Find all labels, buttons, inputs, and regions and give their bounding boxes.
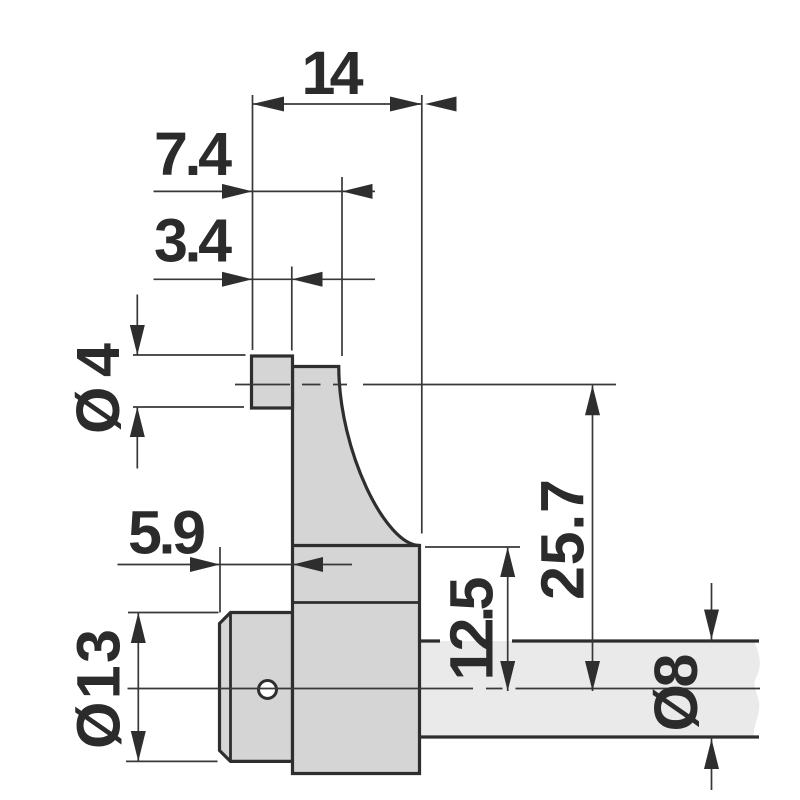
collar chamfer edge line xyxy=(229,613,232,762)
dim 3.4: dimension line xyxy=(154,278,376,280)
dim Ø13: dimension line xyxy=(137,613,139,762)
clamp body xyxy=(293,367,420,774)
dim Ø13: extension lines xyxy=(126,613,219,762)
dim 3.4: extension line xyxy=(291,267,293,351)
collar Ø13 xyxy=(220,613,293,762)
svg-text:Ø 4: Ø 4 xyxy=(64,343,132,434)
dim 12.5: extension line xyxy=(425,546,520,548)
pin centerline xyxy=(235,384,616,386)
dim 5.9: extension line xyxy=(219,547,221,613)
dim 14: extension lines xyxy=(253,95,422,534)
dim Ø4: extension lines xyxy=(133,355,246,407)
dim Ø4: arrows xyxy=(130,325,145,355)
dim 7.4: extension line xyxy=(341,177,343,356)
body slot line xyxy=(293,601,420,604)
dim Ø8: dimension line segments xyxy=(711,583,713,790)
shaft top edge xyxy=(420,639,760,642)
dim 5.9: arrows xyxy=(190,557,220,572)
pin nub Ø4 xyxy=(252,356,293,408)
svg-text:3.4: 3.4 xyxy=(154,207,232,275)
body neck line xyxy=(293,544,420,547)
dim Ø13: arrows xyxy=(131,613,146,644)
dim 14: dimension line xyxy=(253,103,422,105)
svg-text:5.9: 5.9 xyxy=(128,499,206,567)
svg-text:25.7: 25.7 xyxy=(529,479,597,600)
dim 3.4: arrows xyxy=(222,272,253,287)
dim 7.4: dimension line xyxy=(154,190,376,192)
svg-text:12.5: 12.5 xyxy=(438,577,506,681)
dim Ø4: dimension line segments xyxy=(136,295,138,469)
dim 5.9: dimension line xyxy=(118,564,353,566)
dim 7.4: arrows xyxy=(222,184,253,199)
dim Ø8: arrows xyxy=(704,610,719,640)
dim 12.5: arrows xyxy=(500,547,515,577)
svg-text:Ø13: Ø13 xyxy=(65,629,133,749)
svg-text:7.4: 7.4 xyxy=(154,120,232,188)
dim 25.7: arrows xyxy=(585,385,600,415)
dim 14: arrows xyxy=(253,97,285,112)
shaft Ø8 fill with broken-out right edge xyxy=(420,641,760,737)
dim 12.5: dimension line xyxy=(507,547,509,691)
hole in collar xyxy=(259,681,277,699)
shaft centerline xyxy=(128,688,761,690)
shaft bottom edge xyxy=(420,735,760,738)
dim 25.7: dimension line xyxy=(592,385,594,691)
svg-text:Ø8: Ø8 xyxy=(642,654,710,732)
svg-text:14: 14 xyxy=(302,39,364,107)
